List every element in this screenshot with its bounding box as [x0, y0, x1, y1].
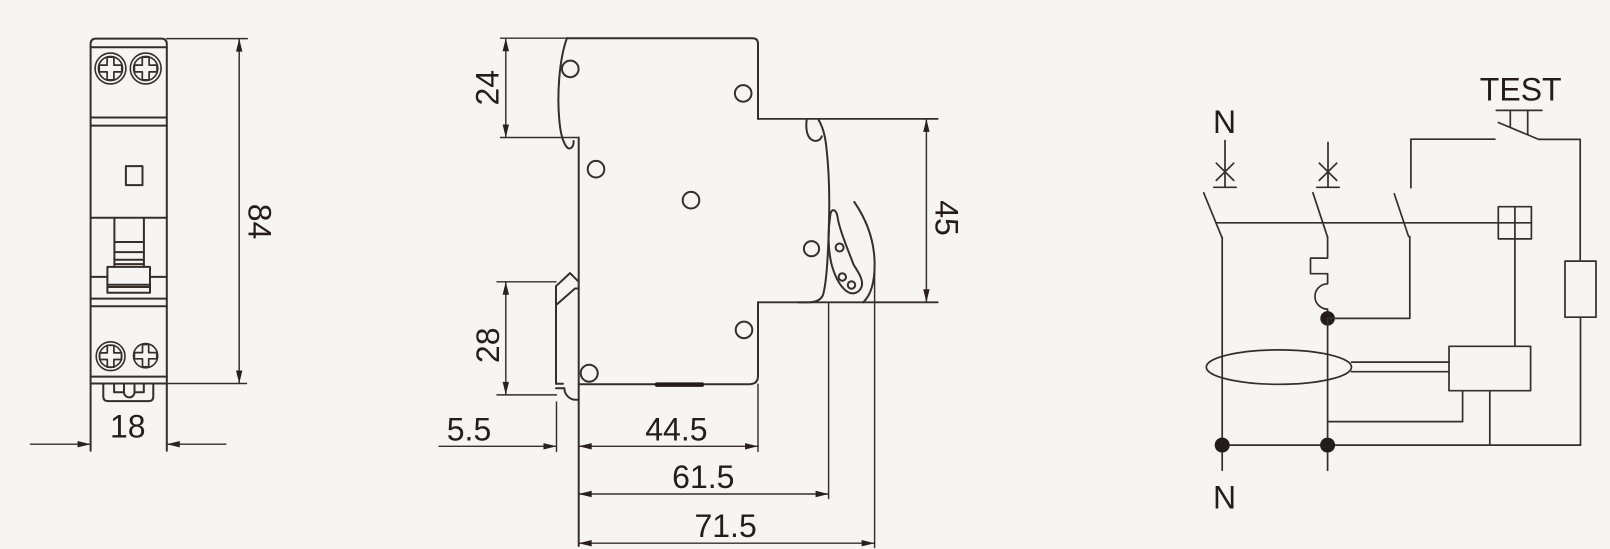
top screw right inner	[134, 56, 158, 80]
arrow 71.5 right	[862, 540, 875, 546]
top cap line	[91, 46, 167, 48]
toggle ear tab	[806, 119, 821, 141]
pin small upper	[836, 244, 844, 252]
bottom bus wire	[1222, 444, 1580, 446]
side profile left curve	[558, 38, 573, 148]
latch pawl blob	[829, 210, 862, 293]
test button cap	[1496, 109, 1542, 111]
dim 28 line	[505, 282, 507, 395]
resistor	[1565, 261, 1596, 317]
side front curve	[799, 119, 830, 302]
terminal section line upper	[91, 117, 167, 119]
mechanism square horizontal	[1498, 222, 1531, 224]
arrow 61.5 left	[579, 491, 592, 497]
arrow 28 up	[503, 282, 509, 295]
switch blade N	[1204, 193, 1222, 238]
svg-text:24: 24	[469, 70, 505, 106]
rivet circle center	[683, 192, 700, 209]
side DIN clip peak	[556, 273, 579, 286]
toggle rib 4	[114, 263, 143, 265]
arrow 24 up	[503, 38, 509, 51]
relay block	[1449, 346, 1531, 390]
side bottom right section	[579, 302, 758, 384]
bottom screw right outer	[134, 344, 158, 368]
bottom screw left outer	[96, 342, 125, 371]
svg-text:N: N	[1213, 104, 1236, 140]
wire square to relay	[1514, 239, 1516, 346]
dim 28 extension bottom	[497, 394, 557, 396]
svg-text:5.5: 5.5	[447, 411, 491, 447]
solenoid coil	[1311, 237, 1328, 318]
wire relay to L pole	[1328, 391, 1463, 422]
dim 61.5 extension	[828, 302, 830, 498]
indicator window square	[126, 166, 143, 185]
rivet circle latch	[804, 241, 819, 256]
latch arc	[854, 202, 874, 302]
toggle handle divider 2	[107, 286, 150, 288]
side profile left vertical	[578, 138, 580, 547]
wire test branch top	[1411, 138, 1495, 140]
svg-text:84: 84	[242, 204, 278, 240]
dim 84 extension top	[167, 38, 248, 40]
rivet circle upper-left	[588, 161, 605, 178]
toggle handle	[107, 267, 150, 293]
dim 84 extension bottom	[167, 383, 247, 385]
dim 18 line right	[167, 443, 226, 445]
junction dot coil	[1320, 311, 1335, 326]
arrow 44.5 right	[745, 443, 758, 449]
contact L upper lead	[1327, 143, 1329, 188]
toggle rib 3	[114, 259, 143, 261]
side DIN clip left vertical	[555, 286, 557, 384]
body line at handle left	[91, 276, 108, 278]
body line below handle 1	[91, 298, 167, 300]
contact N upper lead	[1224, 141, 1226, 188]
toggle rib 1	[114, 241, 143, 243]
wire coil to test branch	[1328, 237, 1410, 319]
arrow 28 down	[503, 382, 509, 395]
CT winding wire lower	[1352, 371, 1450, 373]
toggle handle divider 1	[107, 284, 150, 286]
wire L pole lower	[1327, 318, 1329, 470]
top shoulder line 45	[758, 118, 938, 120]
test button stem 2	[1527, 110, 1529, 134]
svg-text:44.5: 44.5	[645, 411, 707, 447]
arrow 18 right	[167, 441, 180, 447]
body line below handle 2	[91, 305, 167, 307]
side DIN clip bottom	[556, 383, 563, 385]
DIN rail seat mark	[657, 382, 702, 387]
dim 61.5 line	[579, 493, 829, 495]
mechanism square vertical	[1514, 207, 1516, 239]
contact N bar	[1214, 186, 1236, 188]
DIN clip outer	[103, 384, 153, 402]
side profile top edge	[567, 38, 758, 119]
top screw left outer	[95, 53, 126, 84]
svg-text:18: 18	[110, 409, 146, 445]
contact L cross	[1319, 163, 1336, 180]
DIN clip teeth	[114, 384, 144, 398]
arrow 71.5 left	[579, 540, 592, 546]
test button stem 1	[1509, 110, 1511, 127]
junction dot N bottom	[1215, 438, 1230, 453]
bottom section line 2	[91, 383, 167, 385]
toggle shaft right	[143, 218, 145, 267]
wire N pole	[1221, 237, 1223, 470]
dim 45 line	[925, 119, 927, 302]
toggle slot line	[91, 217, 167, 219]
contact N cross	[1216, 163, 1233, 180]
toggle shaft left	[113, 218, 115, 267]
side DIN clip chamfer	[556, 289, 579, 306]
rivet circle top-left	[562, 61, 579, 78]
test button blade	[1498, 123, 1538, 140]
dim 5.5 extension	[556, 402, 558, 452]
top screw right outer	[130, 53, 161, 84]
rivet circle lower-right	[736, 322, 753, 339]
junction dot L bottom	[1320, 438, 1335, 453]
arrow 5.5	[544, 443, 557, 449]
wire test to resistor	[1539, 139, 1581, 261]
wire test branch upper	[1410, 139, 1412, 188]
arrow 45 up	[923, 119, 929, 132]
contact L bar	[1317, 186, 1339, 188]
breaker body outline	[91, 39, 167, 451]
bottom screw right cross	[134, 345, 156, 367]
svg-text:28: 28	[470, 328, 506, 364]
bottom section line	[91, 376, 167, 378]
wire resistor to bus	[1580, 317, 1582, 445]
top screw left cross	[99, 57, 122, 80]
switch blade test	[1394, 194, 1408, 237]
rivet circle top-right	[735, 85, 752, 102]
terminal section line lower	[91, 125, 167, 127]
dim 44.5 extension	[757, 384, 759, 451]
arrow 44.5 left	[579, 443, 592, 449]
svg-text:TEST: TEST	[1480, 71, 1562, 107]
dim 84 line	[238, 39, 240, 384]
arrow 45 down	[923, 289, 929, 302]
dim 24 line	[505, 38, 507, 137]
arrow 84 up	[236, 39, 242, 52]
bottom screw left cross	[100, 345, 122, 367]
dim 28 extension top	[497, 281, 556, 283]
dim 5.5 line	[439, 445, 557, 447]
arrow 84 down	[236, 371, 242, 384]
pin small blob 1	[839, 273, 846, 280]
pin small blob 2	[848, 281, 855, 288]
top screw left inner	[98, 56, 122, 80]
CT winding wire upper	[1352, 361, 1450, 363]
wire relay to bottom bus	[1489, 391, 1491, 445]
svg-text:N: N	[1213, 480, 1236, 516]
dim 71.5 line	[579, 542, 875, 544]
wire trip bus	[1216, 222, 1498, 224]
side DIN clip foot	[556, 388, 579, 400]
arrow 18 left	[78, 441, 91, 447]
current transformer toroid	[1206, 350, 1351, 384]
side step line 24	[501, 137, 579, 139]
dim 24 extension top	[501, 37, 567, 39]
arrow 24 down	[503, 125, 509, 138]
svg-text:45: 45	[929, 200, 965, 236]
svg-text:61.5: 61.5	[672, 459, 734, 495]
rivet circle lower-left	[581, 365, 598, 382]
side step line mid	[758, 301, 938, 303]
bottom screw left inner	[99, 345, 121, 367]
dim 44.5 line	[579, 445, 758, 447]
arrow 61.5 right	[816, 491, 829, 497]
top screw right cross	[134, 57, 157, 80]
dim 71.5 extension	[874, 264, 876, 548]
switch blade L	[1313, 193, 1328, 237]
dim 18 line left	[31, 443, 91, 445]
mechanism square	[1498, 207, 1531, 239]
svg-text:71.5: 71.5	[694, 508, 756, 544]
body line at handle right	[150, 276, 167, 278]
toggle rib 2	[114, 251, 143, 253]
